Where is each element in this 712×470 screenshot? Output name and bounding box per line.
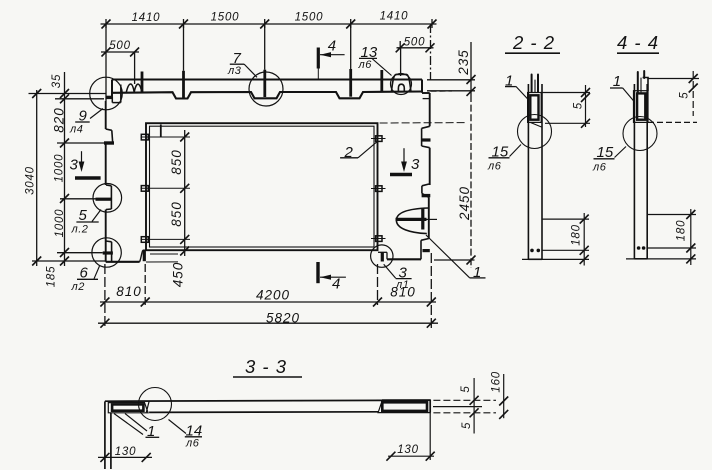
svg-text:450: 450 [171, 262, 186, 288]
svg-text:л2: л2 [71, 281, 85, 293]
svg-text:3 - 3: 3 - 3 [245, 356, 287, 377]
keyway thick mark 820 level [104, 141, 114, 144]
keyway thick mark 6 [103, 251, 113, 254]
svg-text:130: 130 [115, 446, 137, 458]
extension lines down to panel [105, 24, 107, 101]
leader 13 [372, 59, 392, 76]
thin line y=254 near corner [150, 253, 178, 255]
keyway 5 [106, 185, 111, 210]
joint jog [146, 401, 149, 412]
leader 5 [92, 210, 101, 222]
svg-text:1000: 1000 [54, 154, 66, 183]
svg-text:1410: 1410 [380, 11, 409, 23]
svg-text:500: 500 [404, 37, 426, 49]
svg-text:5820: 5820 [266, 311, 300, 326]
svg-text:4200: 4200 [256, 288, 290, 303]
dashed line from opening corner [380, 122, 467, 124]
svg-text:850: 850 [169, 201, 184, 227]
right keyway thick mark K1 [422, 138, 431, 141]
anchor tick in circle 15 [531, 123, 542, 128]
top edge [112, 79, 422, 81]
rebar dots 4-4 [637, 246, 641, 250]
svg-text:3: 3 [70, 157, 79, 174]
left wall down [104, 401, 106, 469]
svg-text:5: 5 [460, 385, 472, 392]
svg-text:5: 5 [461, 422, 473, 429]
right keyway thick mark corner [423, 249, 430, 252]
embedded plate 14 in 2-2 [528, 93, 542, 123]
left end vertical [111, 80, 113, 97]
rebar dots 2-2 [530, 249, 534, 253]
circle detail 15 in 4-4 [623, 117, 657, 151]
svg-text:5: 5 [679, 92, 691, 99]
slab top edge [105, 400, 430, 401]
wall section 2-2 [528, 84, 542, 259]
keyway at 820 level [106, 129, 113, 142]
keyway thick mark 5 [96, 198, 112, 201]
embedded bar on strip x=264.8 [263, 70, 266, 97]
svg-text:л.2: л.2 [71, 224, 89, 236]
keyway K1 right [422, 126, 430, 147]
svg-text:л4: л4 [69, 124, 83, 136]
keyway K2 right [422, 184, 429, 197]
svg-text:810: 810 [390, 285, 416, 300]
tick marks [102, 20, 437, 29]
svg-text:820: 820 [52, 107, 67, 133]
svg-text:л6: л6 [487, 160, 502, 172]
embedded bar on strip x=183.5 [182, 71, 185, 99]
extension dashes [104, 264, 106, 329]
title underline [505, 52, 560, 54]
corner keyway block 9 [112, 85, 121, 103]
dim 180 in 2-2 [522, 213, 589, 266]
svg-text:1500: 1500 [295, 12, 324, 24]
leader 9 [90, 109, 103, 119]
dims 5/160/5 right of 3-3 [433, 374, 508, 434]
svg-text:130: 130 [397, 444, 419, 456]
lifting loop humps [126, 84, 142, 92]
extension lines to panel edge [29, 93, 107, 95]
embedded bar on strip x=350.7 [349, 69, 352, 97]
embedded mark on opening top edge x=161 [160, 125, 162, 138]
svg-text:2450: 2450 [457, 186, 472, 221]
bottom corner jog [421, 239, 429, 260]
svg-text:4: 4 [332, 276, 340, 293]
svg-text:4 - 4: 4 - 4 [617, 32, 659, 53]
embedded bar on strip x=142 [141, 72, 144, 93]
embedded plate 14 right (3-3) [378, 400, 430, 413]
svg-text:500: 500 [109, 40, 131, 52]
svg-text:180: 180 [571, 224, 583, 246]
right end vertical [421, 80, 423, 93]
svg-text:2 - 2: 2 - 2 [512, 32, 555, 53]
title underline [617, 52, 659, 54]
thick stud at 810 line [143, 250, 146, 262]
dim 130 left (3-3) [98, 453, 152, 462]
dim 5 in 4-4 [648, 71, 699, 122]
circle detail 5 [93, 184, 122, 213]
right end vertical [429, 400, 431, 413]
circle detail 9 [90, 77, 123, 110]
svg-text:1500: 1500 [211, 12, 240, 24]
circle detail 6 [92, 238, 121, 267]
dim 130 right (3-3) [386, 413, 434, 461]
slab section 3-3 [105, 400, 430, 469]
bottom edge right deep part [387, 258, 421, 260]
svg-text:185: 185 [46, 266, 58, 288]
dim 5 in 2-2 [541, 85, 590, 128]
bottom edge left deep part [106, 261, 140, 263]
circle detail 15 in 2-2 [518, 115, 552, 149]
svg-text:л3: л3 [227, 65, 242, 77]
bottom edge with notches [113, 92, 423, 99]
embedded plate 14 left (3-3) [108, 401, 149, 412]
lifting loop detail 13 (U-loop) [391, 74, 411, 92]
loop prongs 4-4 [638, 71, 644, 92]
dimension line top [101, 23, 437, 25]
leader 6 [94, 266, 100, 279]
dashed axis right of strip [431, 90, 453, 92]
svg-text:1410: 1410 [132, 12, 161, 24]
dim 180 in 4-4 [626, 209, 696, 265]
step up at x=140 [140, 250, 143, 261]
svg-text:850: 850 [169, 149, 184, 175]
svg-text:160: 160 [491, 371, 503, 393]
wall section 4-4 [634, 84, 647, 259]
svg-text:810: 810 [116, 284, 142, 299]
title underline [233, 376, 302, 378]
svg-text:л6: л6 [358, 59, 373, 71]
embedded plate 14 in 4-4 (with top hook) [643, 78, 648, 91]
circle detail 7 [249, 72, 283, 106]
slab bottom from joint to right plate [149, 411, 378, 414]
svg-text:л6: л6 [185, 438, 200, 450]
leader 7 [244, 64, 257, 77]
circle detail 13 [391, 74, 412, 95]
svg-text:35: 35 [51, 74, 63, 88]
svg-text:3040: 3040 [25, 166, 37, 195]
svg-text:5: 5 [573, 102, 585, 109]
thin line y=262 near corner [146, 261, 178, 263]
svg-text:4: 4 [328, 38, 336, 55]
svg-text:л6: л6 [592, 161, 607, 173]
svg-text:180: 180 [676, 220, 688, 242]
circle detail 3 [371, 245, 393, 267]
svg-text:1000: 1000 [54, 209, 66, 238]
right keyway thick mark K2 [422, 194, 431, 197]
circle detail 14 (3-3) [139, 388, 172, 421]
keyway 6 [106, 241, 112, 262]
svg-text:235: 235 [456, 49, 471, 76]
loop prongs 2-2 [532, 75, 538, 93]
embedded bar on strip x=381.8 [380, 70, 383, 92]
svg-text:3: 3 [411, 156, 420, 173]
